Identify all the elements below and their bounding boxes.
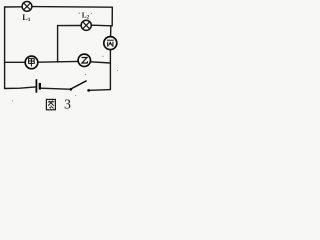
wire middle left [5,61,25,63]
meter YI (乙) [78,54,90,66]
scan noise specks [12,13,118,102]
switch S [69,81,90,92]
wire middle center [38,60,78,63]
wire right vertical upper [111,7,113,36]
wire L2 branch horizontal right [91,24,112,27]
meter BING (丙) [104,37,117,50]
wire bottom middle [41,88,69,89]
wire top-left horizontal [5,6,23,8]
wire top horizontal right of L1 [32,6,112,9]
wire right vertical lower [109,50,111,90]
lamp L2 [81,20,91,30]
wire bottom left [5,87,36,89]
wire middle right [90,62,110,63]
wire left vertical [4,7,6,89]
node T-junction L2 branch [57,26,59,62]
wire bottom right [90,89,110,92]
label TU (图) [46,99,55,109]
meter JIA (甲) [25,56,38,69]
battery cell [36,79,41,93]
wire L2 branch horizontal left [58,25,82,27]
svg-text:3: 3 [64,98,71,113]
lamp L1 [22,2,32,12]
